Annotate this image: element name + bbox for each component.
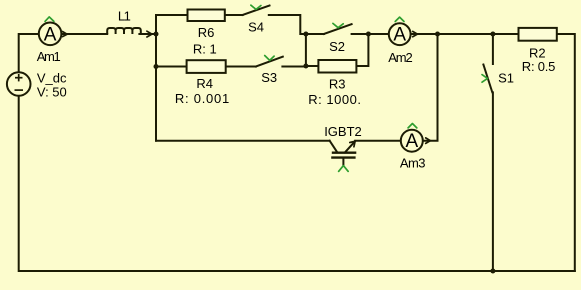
ammeter Am3 (401, 130, 423, 152)
node R4 branch junction (154, 64, 159, 69)
arrow after Am1 (63, 32, 68, 37)
svg-text:S2: S2 (329, 39, 345, 54)
node Am2out junction (435, 32, 440, 37)
svg-text:R: 1000.: R: 1000. (308, 92, 361, 107)
svg-text:S1: S1 (498, 71, 514, 86)
wire Am2 out to R2 (411, 33, 519, 35)
wire middle-left vertical (155, 15, 157, 141)
probe arrow Am2 (395, 17, 404, 21)
wire node to R3 (306, 65, 319, 67)
switch S4 blade (243, 6, 270, 16)
svg-text:S4: S4 (248, 20, 264, 35)
svg-text:R6: R6 (198, 25, 215, 40)
probe arrow Am1 (45, 17, 54, 22)
gate arrow S1 (482, 75, 488, 83)
switch S3 blade (256, 57, 283, 67)
source V_dc plus minus (15, 74, 24, 90)
svg-text:A: A (44, 24, 57, 45)
svg-text:Am1: Am1 (37, 49, 61, 64)
wire Am1 to L1 (62, 33, 107, 35)
wire S2 out to Am2 (352, 33, 389, 35)
probe arrow Am3 (408, 124, 417, 128)
node L1-R6R4 junction (154, 32, 159, 37)
svg-text:R4: R4 (196, 76, 213, 91)
resistor R6 (188, 10, 225, 22)
wire R3 right up (356, 34, 368, 66)
svg-text:L1: L1 (118, 9, 131, 24)
svg-text:S3: S3 (261, 70, 277, 85)
gate arrow S3 (265, 56, 274, 61)
resistor R2 (519, 28, 557, 41)
svg-text:A: A (393, 25, 406, 46)
wire R2 out right rail (557, 34, 575, 271)
node S2out-R3 junction (366, 32, 371, 37)
node S1 bottom junction (490, 269, 495, 274)
svg-text:R3: R3 (329, 77, 346, 92)
arrow after Am2 (413, 31, 418, 36)
wire top-left rail to Am1 (19, 96, 575, 271)
svg-text:Am3: Am3 (400, 156, 426, 171)
node S4-S2 junction (303, 32, 308, 37)
svg-text:IGBT2: IGBT2 (324, 124, 362, 139)
gate arrow S2 (333, 23, 343, 27)
wire R6 branch left (156, 14, 188, 16)
gate arrow S4 (251, 5, 261, 9)
svg-text:R: 1: R: 1 (193, 42, 217, 57)
wire IGBT branch (156, 140, 330, 142)
wire R6 to S4 (225, 14, 243, 16)
wire vertical Am2-node to IGBT branch (423, 34, 438, 141)
svg-text:R: 0.5: R: 0.5 (522, 59, 556, 74)
svg-text:R: 0.001: R: 0.001 (175, 91, 229, 106)
wire node down S4S3 (305, 34, 307, 66)
ammeter Am2 (389, 23, 411, 45)
resistor R4 (187, 60, 226, 73)
wire S3 out (282, 66, 306, 68)
source V_dc (7, 72, 31, 96)
svg-text:V: 50: V: 50 (37, 84, 67, 99)
arrow after Am3 (426, 138, 431, 144)
wire IGBT to Am3 (355, 140, 401, 142)
arrow after L1 (147, 31, 152, 37)
svg-text:A: A (405, 131, 418, 152)
wire R4 branch left (156, 66, 187, 68)
svg-text:Am2: Am2 (388, 50, 412, 65)
gate arrow IGBT2 (339, 166, 349, 172)
wire left rail up (19, 34, 39, 72)
transistor IGBT2 (330, 141, 356, 166)
wire S4 to corner down (269, 15, 324, 34)
resistor R3 (318, 60, 356, 73)
wire L1 to node (139, 33, 156, 35)
inductor L1 (107, 28, 141, 34)
wire R4 to S3 (226, 66, 256, 68)
wire S1 bottom (492, 92, 494, 271)
node S1 top junction (490, 32, 495, 37)
switch S1 blade (483, 65, 492, 93)
ammeter Am1 (39, 23, 62, 46)
switch S2 blade (324, 24, 352, 34)
node S3-R3 junction (303, 64, 308, 69)
wire S1 top (492, 34, 494, 64)
svg-text:V_dc: V_dc (37, 70, 67, 85)
